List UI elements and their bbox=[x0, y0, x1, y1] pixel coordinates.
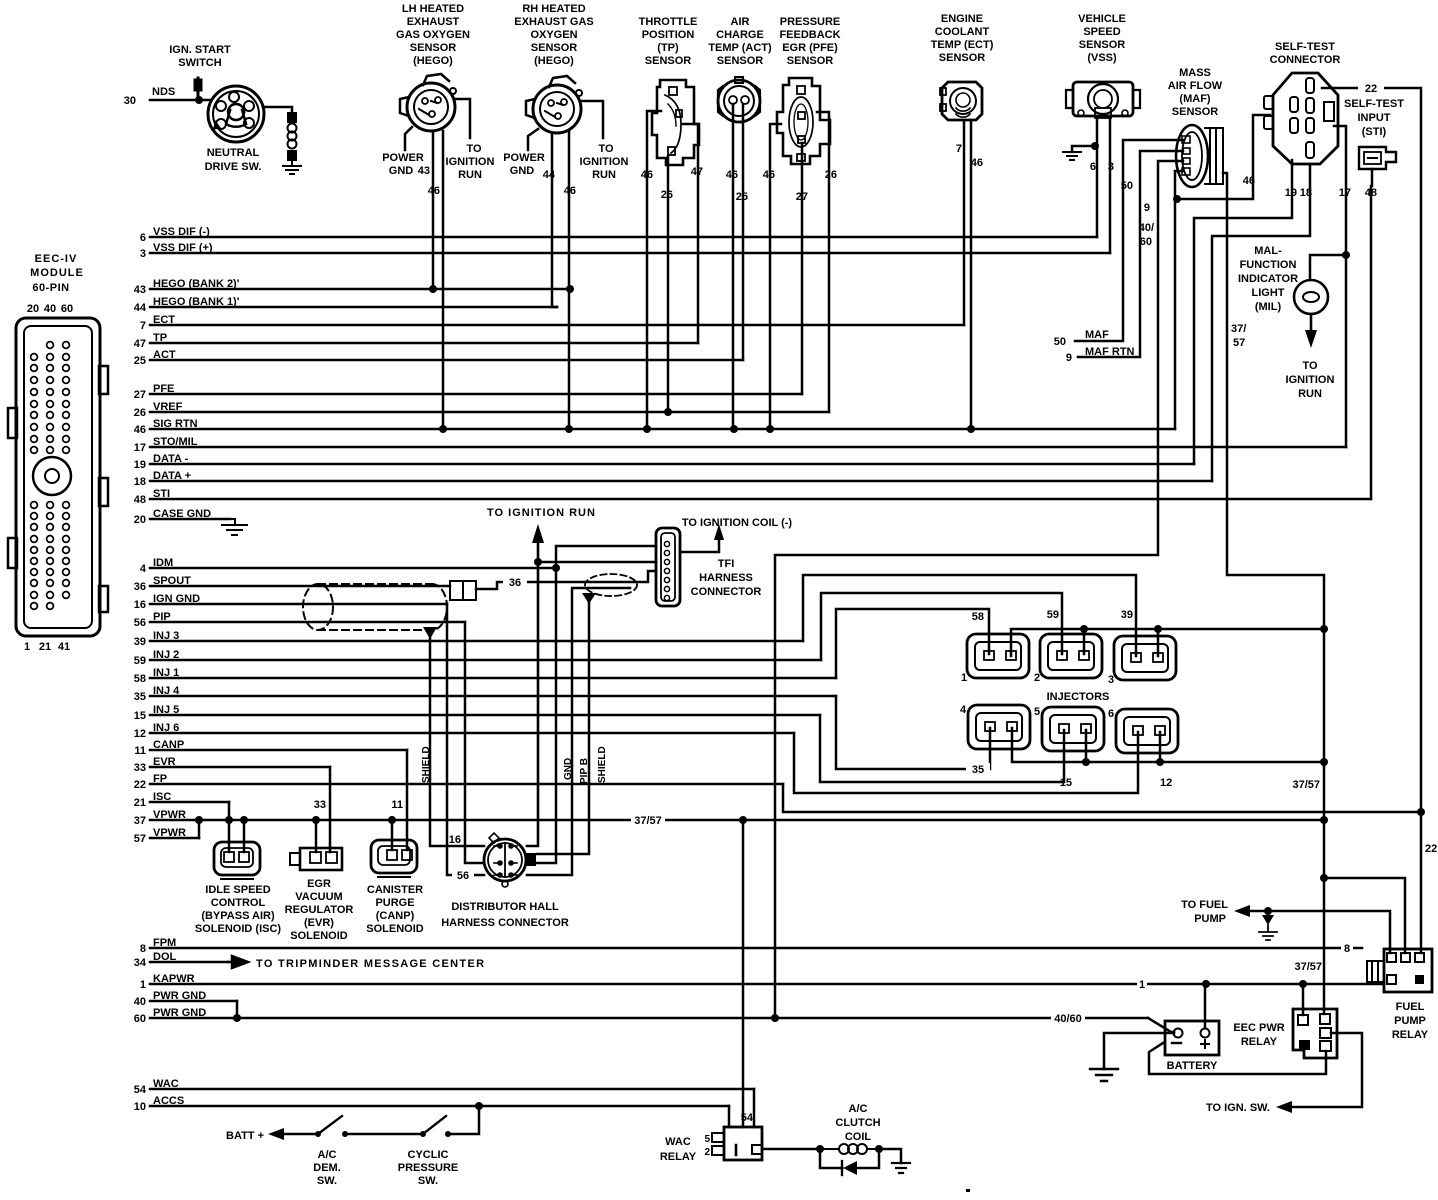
wire KAPWR (pin 1) bus line bbox=[150, 983, 1383, 986]
svg-text:THROTTLE: THROTTLE bbox=[639, 16, 698, 28]
module labels bbox=[24, 253, 84, 653]
svg-text:40/60: 40/60 bbox=[1054, 1013, 1082, 1025]
svg-text:22: 22 bbox=[1365, 83, 1377, 95]
svg-text:STI: STI bbox=[153, 488, 170, 500]
wire VPWR (pin 37) bus line bbox=[150, 819, 1324, 822]
svg-text:DRIVE SW.: DRIVE SW. bbox=[205, 161, 262, 173]
svg-text:57: 57 bbox=[134, 833, 146, 845]
wire TP 46 to SIG RTN bbox=[647, 111, 661, 429]
wire ACT 25 to ACT line bbox=[742, 104, 745, 360]
svg-text:SENSOR: SENSOR bbox=[410, 42, 457, 54]
svg-text:47: 47 bbox=[691, 166, 703, 178]
svg-text:TFI: TFI bbox=[718, 558, 735, 570]
svg-text:PUMP: PUMP bbox=[1394, 1015, 1426, 1027]
wire INJ 5 (pin 15) bus line bbox=[150, 714, 820, 717]
wire MAF pin 9 (MAF RTN) bbox=[1078, 151, 1183, 357]
svg-text:SW.: SW. bbox=[418, 1175, 438, 1187]
svg-text:21: 21 bbox=[39, 641, 51, 653]
svg-text:INDICATOR: INDICATOR bbox=[1238, 273, 1298, 285]
svg-text:AIR: AIR bbox=[731, 16, 750, 28]
svg-text:CONTROL: CONTROL bbox=[211, 897, 266, 909]
svg-text:TEMP (ECT): TEMP (ECT) bbox=[931, 39, 994, 51]
svg-text:48: 48 bbox=[134, 494, 146, 506]
svg-text:COOLANT: COOLANT bbox=[935, 26, 990, 38]
svg-text:(CANP): (CANP) bbox=[376, 910, 415, 922]
svg-text:12: 12 bbox=[1160, 777, 1172, 789]
svg-text:POWER: POWER bbox=[382, 152, 424, 164]
wire label gaps on bus lines bbox=[631, 814, 665, 827]
svg-text:TP: TP bbox=[153, 332, 167, 344]
wire VSS pin6 to VSS DIF(-) with ground branch bbox=[1072, 118, 1097, 237]
svg-text:27: 27 bbox=[796, 191, 808, 203]
svg-text:SENSOR: SENSOR bbox=[787, 55, 834, 67]
wire MAF pin 50 bbox=[1075, 140, 1183, 341]
svg-text:SENSOR: SENSOR bbox=[1172, 106, 1219, 118]
injector top power rail bbox=[1011, 629, 1324, 656]
svg-text:FPM: FPM bbox=[153, 937, 176, 949]
svg-text:(BYPASS AIR): (BYPASS AIR) bbox=[201, 910, 275, 922]
svg-text:7: 7 bbox=[140, 320, 146, 332]
svg-text:FEEDBACK: FEEDBACK bbox=[779, 29, 840, 41]
svg-text:INJ 4: INJ 4 bbox=[153, 685, 180, 697]
svg-text:20: 20 bbox=[134, 514, 146, 526]
svg-text:18: 18 bbox=[1300, 187, 1312, 199]
svg-text:POWER: POWER bbox=[503, 152, 545, 164]
svg-text:IGNITION: IGNITION bbox=[1286, 374, 1335, 386]
wire EVR pin to VPWR bbox=[315, 820, 318, 852]
injector connector 2 (top row) bbox=[1040, 634, 1102, 678]
svg-text:PFE: PFE bbox=[153, 383, 174, 395]
wire PIP (pin 56) bus line bbox=[150, 621, 465, 624]
wire INJ 3 (pin 39) bus line bbox=[150, 640, 803, 643]
svg-text:(HEGO): (HEGO) bbox=[534, 55, 574, 67]
wire ISC (pin 21) bus line bbox=[150, 801, 229, 804]
wire ECT (pin 7) bus line bbox=[150, 324, 964, 327]
svg-text:8: 8 bbox=[140, 943, 146, 955]
shield drain arrow 2 bbox=[582, 593, 596, 604]
wire shield to distributor bbox=[430, 637, 484, 846]
sensor MAF (mass air flow) bbox=[1176, 125, 1223, 187]
wire PFE 46 to SIG RTN bbox=[770, 124, 781, 429]
svg-text:IDM: IDM bbox=[153, 557, 173, 569]
resistor (coil) on NDS ground branch bbox=[288, 113, 297, 160]
svg-text:CANP: CANP bbox=[153, 739, 184, 751]
svg-text:40/: 40/ bbox=[1139, 222, 1154, 234]
svg-text:INJ 2: INJ 2 bbox=[153, 649, 179, 661]
svg-text:22: 22 bbox=[134, 779, 146, 791]
svg-text:40: 40 bbox=[134, 996, 146, 1008]
wire TP 26 to VREF bbox=[667, 156, 670, 412]
wire to fuel pump + splice bbox=[1250, 911, 1390, 953]
svg-text:3: 3 bbox=[140, 248, 146, 260]
svg-text:VPWR: VPWR bbox=[153, 827, 186, 839]
self-test connector bbox=[1264, 73, 1338, 164]
svg-text:INPUT: INPUT bbox=[1358, 112, 1391, 124]
shield drain arrow bbox=[423, 627, 437, 639]
battery bbox=[1165, 1021, 1219, 1055]
wire EVR pin2 to EVR line bbox=[329, 767, 332, 852]
svg-text:EGR (PFE): EGR (PFE) bbox=[782, 42, 838, 54]
svg-text:FUEL: FUEL bbox=[1396, 1001, 1425, 1013]
svg-text:PWR GND: PWR GND bbox=[153, 990, 206, 1002]
svg-text:PWR GND: PWR GND bbox=[153, 1007, 206, 1019]
wire self-test 17 to STO/MIL bbox=[1334, 126, 1346, 447]
svg-text:19: 19 bbox=[1285, 187, 1297, 199]
sensor HEGO RH (right heated exhaust gas oxygen sensor) bbox=[526, 76, 582, 133]
svg-text:CANISTER: CANISTER bbox=[367, 884, 423, 896]
wire NDS pin30 to switch bbox=[150, 99, 210, 102]
svg-text:HEGO (BANK 1)': HEGO (BANK 1)' bbox=[153, 296, 240, 308]
wire INJ1 feeder to injector 1 bbox=[836, 609, 989, 678]
svg-text:CLUTCH: CLUTCH bbox=[835, 1117, 880, 1129]
solenoid ISC (idle speed control) bbox=[214, 842, 260, 879]
svg-text:SENSOR: SENSOR bbox=[939, 52, 986, 64]
vertical labels GND PIP B SHIELD bbox=[421, 746, 608, 784]
svg-text:IDLE SPEED: IDLE SPEED bbox=[205, 884, 270, 896]
svg-text:35: 35 bbox=[134, 691, 146, 703]
svg-text:BATT +: BATT + bbox=[226, 1130, 264, 1142]
svg-text:21: 21 bbox=[134, 797, 146, 809]
svg-text:58: 58 bbox=[134, 673, 146, 685]
switch cyclic pressure bbox=[420, 1131, 426, 1137]
component name texts (top row) bbox=[396, 3, 1404, 138]
wire HEGO LH to ignition run bbox=[455, 99, 470, 138]
svg-text:TO IGN. SW.: TO IGN. SW. bbox=[1206, 1102, 1270, 1114]
svg-text:IGNITION: IGNITION bbox=[580, 156, 629, 168]
sensor VSS (vehicle speed) bbox=[1066, 82, 1140, 118]
svg-text:(EVR): (EVR) bbox=[304, 917, 334, 929]
wire self-test 18 to DATA+ bbox=[1212, 164, 1310, 481]
svg-text:DEM.: DEM. bbox=[313, 1162, 341, 1174]
svg-text:2: 2 bbox=[704, 1147, 710, 1158]
wire FPM (pin 8) bus line bbox=[150, 947, 1362, 950]
distributor hall harness connector bbox=[484, 833, 536, 887]
wire PWR GND 40 riser bbox=[236, 1001, 239, 1018]
svg-text:PIP: PIP bbox=[153, 611, 171, 623]
wire EEC relay ground return to battery bbox=[1149, 1043, 1326, 1074]
wire WAC relay to A/C clutch coil bbox=[762, 1148, 820, 1151]
svg-text:ACT: ACT bbox=[153, 349, 176, 361]
wire DATA + (pin 18) bus line bbox=[150, 480, 1212, 483]
wire ACCS (pin 10) bus line bbox=[150, 1105, 729, 1108]
svg-text:43: 43 bbox=[134, 284, 146, 296]
svg-text:9: 9 bbox=[1144, 202, 1150, 214]
svg-text:GND: GND bbox=[510, 165, 535, 177]
svg-text:39: 39 bbox=[1121, 609, 1133, 621]
svg-text:44: 44 bbox=[134, 302, 147, 314]
svg-text:46: 46 bbox=[726, 169, 738, 181]
svg-text:GND: GND bbox=[563, 758, 574, 780]
wire MAF 40/60 to PWR GND bbox=[775, 161, 1183, 1018]
svg-text:PURGE: PURGE bbox=[375, 897, 414, 909]
wire IDM to TFI pin1 and distributor bbox=[527, 546, 656, 863]
svg-text:3: 3 bbox=[1108, 161, 1114, 173]
svg-text:VREF: VREF bbox=[153, 401, 183, 413]
wire to cyclic pressure switch bbox=[345, 1133, 423, 1136]
svg-text:37: 37 bbox=[134, 815, 146, 827]
svg-text:60: 60 bbox=[134, 1013, 146, 1025]
wire coil to ground bbox=[879, 1149, 901, 1163]
svg-text:WAC: WAC bbox=[665, 1136, 691, 1148]
svg-text:50: 50 bbox=[1054, 336, 1066, 348]
svg-text:3: 3 bbox=[1108, 674, 1114, 686]
svg-text:36: 36 bbox=[509, 577, 521, 589]
svg-text:DISTRIBUTOR HALL: DISTRIBUTOR HALL bbox=[451, 901, 559, 913]
svg-text:34: 34 bbox=[134, 957, 147, 969]
injector connector 3 (top row) bbox=[1114, 636, 1176, 680]
svg-text:46: 46 bbox=[1243, 175, 1255, 187]
svg-text:(HEGO): (HEGO) bbox=[413, 55, 453, 67]
wire INJ 1 (pin 58) bus line bbox=[150, 677, 836, 680]
svg-text:6: 6 bbox=[140, 232, 146, 244]
svg-text:NDS: NDS bbox=[152, 86, 175, 98]
wire CANP pin2 to CANP line bbox=[406, 750, 409, 850]
svg-text:11: 11 bbox=[134, 745, 146, 757]
svg-text:DATA +: DATA + bbox=[153, 470, 191, 482]
ground (case gnd pin 20) bbox=[222, 519, 247, 535]
svg-text:SIG RTN: SIG RTN bbox=[153, 418, 198, 430]
svg-text:9: 9 bbox=[1066, 352, 1072, 364]
wire INJ6 feeder to injector 6 bbox=[794, 732, 1138, 793]
svg-text:12: 12 bbox=[134, 728, 146, 740]
svg-text:18: 18 bbox=[134, 476, 146, 488]
svg-text:37/: 37/ bbox=[1231, 323, 1246, 335]
svg-text:MAF: MAF bbox=[1085, 329, 1109, 341]
svg-text:2: 2 bbox=[1034, 672, 1040, 684]
svg-text:VEHICLE: VEHICLE bbox=[1078, 13, 1126, 25]
svg-text:CONNECTOR: CONNECTOR bbox=[691, 586, 762, 598]
svg-text:RUN: RUN bbox=[592, 169, 616, 181]
svg-text:1: 1 bbox=[24, 641, 30, 653]
wire HEGO LH pin 43 to HEGO BANK2 line bbox=[432, 131, 435, 289]
wire TP 47 to TP line bbox=[682, 124, 698, 343]
svg-text:DATA -: DATA - bbox=[153, 453, 189, 465]
A/C clutch coil bbox=[820, 1144, 879, 1154]
wire HEGO (BANK 2)' (pin 43) bus line bbox=[150, 288, 570, 291]
wire VPWR (pin 57) bus line bbox=[150, 837, 199, 840]
svg-text:A/C: A/C bbox=[849, 1103, 868, 1115]
ignition start switch key symbol bbox=[195, 78, 201, 99]
sensor ACT (air charge temp) bbox=[718, 77, 760, 122]
wire WAC (pin 54) bus line bbox=[150, 1088, 754, 1091]
arrow MIL to ignition run bbox=[1310, 314, 1313, 332]
wire INJ4 feeder to injector 4 bbox=[836, 696, 990, 769]
shielded cable (dashed) around SPOUT/PIP bbox=[303, 584, 447, 630]
injector connector 4 (bottom row) bbox=[968, 705, 1030, 749]
wire VSS DIF (+) (pin 3) bus line bbox=[150, 252, 1110, 255]
wire IGN GND (pin 16) bus line bbox=[150, 603, 447, 606]
svg-text:TO IGNITION COIL (-): TO IGNITION COIL (-) bbox=[682, 517, 793, 529]
svg-text:HARNESS: HARNESS bbox=[699, 572, 753, 584]
scan artifact dot bbox=[966, 1189, 970, 1192]
svg-text:MASS: MASS bbox=[1179, 67, 1211, 79]
wire shield2 to distributor tab bbox=[537, 602, 589, 854]
wire VSS DIF (-) (pin 6) bus line bbox=[150, 236, 1097, 239]
wire TO IGNITION RUN feed to TFI pin3 and distributor bbox=[527, 541, 656, 846]
malfunction indicator light MIL bbox=[1310, 255, 1346, 280]
svg-text:59: 59 bbox=[1047, 609, 1059, 621]
svg-text:SENSOR: SENSOR bbox=[645, 55, 692, 67]
wire switch to resistor to ground bbox=[263, 107, 292, 113]
sensor HEGO LH (left heated exhaust gas oxygen sensor) bbox=[400, 74, 456, 131]
svg-text:RELAY: RELAY bbox=[1392, 1029, 1429, 1041]
svg-text:47: 47 bbox=[134, 338, 146, 350]
svg-text:33: 33 bbox=[134, 762, 146, 774]
wire DOL (pin 34) bus line bbox=[150, 961, 228, 964]
wire battery minus to ground bbox=[1104, 1033, 1174, 1069]
injector connector 1 (top row) bbox=[967, 634, 1029, 678]
inline connector on SPOUT bbox=[450, 581, 476, 600]
svg-text:SPOUT: SPOUT bbox=[153, 575, 191, 587]
wire INJ5 feeder to injector 5 bbox=[820, 715, 1064, 782]
svg-text:MODULE: MODULE bbox=[30, 267, 84, 279]
svg-text:5: 5 bbox=[1034, 706, 1040, 718]
svg-text:IGNITION: IGNITION bbox=[446, 156, 495, 168]
wire INJ 6 (pin 12) bus line bbox=[150, 732, 794, 735]
wire HEGO (BANK 1)' (pin 44) bus line bbox=[150, 306, 557, 309]
wire PWR GND (pin 40) bus line bbox=[150, 1000, 237, 1003]
wire DATA - (pin 19) bus line bbox=[150, 463, 1194, 466]
svg-text:SOLENOID: SOLENOID bbox=[366, 923, 424, 935]
wire TP (pin 47) bus line bbox=[150, 342, 698, 345]
wire TFI pin2 to ignition coil bbox=[680, 538, 719, 552]
wire CASE GND (pin 20) bus line bbox=[150, 518, 230, 521]
svg-text:TO: TO bbox=[1302, 360, 1318, 372]
wire IGN GND to distributor bbox=[447, 604, 484, 875]
svg-text:SELF-TEST: SELF-TEST bbox=[1344, 98, 1404, 110]
svg-text:(MIL): (MIL) bbox=[1255, 301, 1282, 313]
svg-text:RELAY: RELAY bbox=[660, 1151, 697, 1163]
svg-text:INJ 5: INJ 5 bbox=[153, 704, 179, 716]
wire HEGO RH pin 46 to SIG RTN bbox=[568, 131, 571, 429]
svg-text:EEC PWR: EEC PWR bbox=[1233, 1022, 1284, 1034]
svg-text:ISC: ISC bbox=[153, 791, 171, 803]
svg-text:TO IGNITION RUN: TO IGNITION RUN bbox=[487, 507, 596, 519]
svg-text:8: 8 bbox=[1344, 943, 1350, 955]
svg-text:PRESSURE: PRESSURE bbox=[398, 1162, 459, 1174]
svg-text:1: 1 bbox=[961, 672, 967, 684]
svg-text:AIR FLOW: AIR FLOW bbox=[1168, 80, 1223, 92]
svg-text:CHARGE: CHARGE bbox=[716, 29, 764, 41]
wire PFE (pin 27) bus line bbox=[150, 393, 802, 396]
svg-text:46: 46 bbox=[971, 157, 983, 169]
svg-text:TO: TO bbox=[466, 143, 482, 155]
TFI harness connector bbox=[656, 528, 680, 606]
wire ACT 46 to SIG RTN bbox=[732, 104, 735, 429]
svg-text:20: 20 bbox=[27, 303, 39, 315]
wire HEGO LH power gnd bbox=[405, 127, 412, 150]
svg-text:19: 19 bbox=[134, 459, 146, 471]
solenoid EVR (EGR vacuum regulator) bbox=[290, 848, 342, 870]
ground (battery) bbox=[1090, 1069, 1118, 1081]
svg-text:PRESSURE: PRESSURE bbox=[780, 16, 841, 28]
label 56 gap bbox=[452, 869, 474, 882]
wire EVR (pin 33) bus line bbox=[150, 766, 330, 769]
injector connector 5 (bottom row) bbox=[1042, 707, 1104, 751]
svg-text:58: 58 bbox=[972, 611, 984, 623]
svg-text:56: 56 bbox=[457, 870, 469, 882]
injector wire number labels bbox=[972, 609, 1173, 789]
svg-text:TEMP (ACT): TEMP (ACT) bbox=[708, 42, 772, 54]
neutral drive switch bbox=[208, 86, 264, 142]
svg-text:SENSOR: SENSOR bbox=[531, 42, 578, 54]
svg-text:1: 1 bbox=[1139, 979, 1145, 991]
svg-text:GAS OXYGEN: GAS OXYGEN bbox=[396, 29, 470, 41]
wire BATT+ to A/C dem switch bbox=[284, 1133, 318, 1136]
ground (VSS) bbox=[1063, 152, 1081, 160]
svg-text:30: 30 bbox=[124, 95, 136, 107]
wire INJ 2 (pin 59) bus line bbox=[150, 659, 821, 662]
svg-text:25: 25 bbox=[134, 355, 146, 367]
svg-text:15: 15 bbox=[134, 710, 146, 722]
svg-text:(MAF): (MAF) bbox=[1179, 93, 1210, 105]
relay fuel pump bbox=[1367, 949, 1432, 992]
svg-text:CYCLIC: CYCLIC bbox=[408, 1149, 449, 1161]
svg-text:54: 54 bbox=[741, 1112, 754, 1124]
svg-text:FP: FP bbox=[153, 773, 167, 785]
svg-text:1: 1 bbox=[140, 979, 146, 991]
label 35 gap on INJ4 feeder bbox=[966, 763, 990, 776]
svg-text:STO/MIL: STO/MIL bbox=[153, 436, 198, 448]
wire INJ2 feeder to injector 2 bbox=[821, 593, 1062, 660]
wire VSS pin3 to VSS DIF(+) bbox=[1109, 118, 1112, 253]
svg-text:46: 46 bbox=[564, 185, 576, 197]
wire IDM (pin 4) bus line bbox=[150, 567, 556, 570]
svg-text:(STI): (STI) bbox=[1362, 126, 1387, 138]
svg-text:50: 50 bbox=[1121, 180, 1133, 192]
svg-text:56: 56 bbox=[134, 617, 146, 629]
wire MAF pin4 / SIG RTN riser bbox=[1175, 171, 1183, 429]
svg-text:VACUUM: VACUUM bbox=[295, 891, 342, 903]
wire ECT 46 to SIG RTN bbox=[970, 120, 973, 429]
svg-text:PUMP: PUMP bbox=[1194, 913, 1226, 925]
svg-text:TO FUEL: TO FUEL bbox=[1181, 899, 1228, 911]
svg-text:KAPWR: KAPWR bbox=[153, 973, 195, 985]
svg-text:PIP B: PIP B bbox=[579, 758, 590, 784]
svg-text:SW.: SW. bbox=[317, 1175, 337, 1187]
wire ISC pin2 to VPWR bbox=[243, 820, 246, 852]
wire INJ 4 (pin 35) bus line bbox=[150, 695, 836, 698]
wire PFE 27 to PFE line bbox=[801, 143, 804, 394]
wire HEGO LH pin 46 to SIG RTN bbox=[442, 131, 445, 429]
svg-text:BATTERY: BATTERY bbox=[1167, 1060, 1218, 1072]
svg-text:40: 40 bbox=[44, 303, 56, 315]
svg-text:SWITCH: SWITCH bbox=[178, 57, 221, 69]
wire self-test 19 to DATA- bbox=[1194, 160, 1292, 464]
svg-text:17: 17 bbox=[134, 442, 146, 454]
svg-text:VPWR: VPWR bbox=[153, 809, 186, 821]
svg-text:46: 46 bbox=[763, 169, 775, 181]
solenoid CANP (canister purge) bbox=[371, 840, 417, 877]
svg-text:60: 60 bbox=[61, 303, 73, 315]
svg-text:DOL: DOL bbox=[153, 951, 177, 963]
svg-text:7: 7 bbox=[956, 143, 962, 155]
wire STO/MIL (pin 17) bus line bbox=[150, 446, 1346, 449]
svg-text:CONNECTOR: CONNECTOR bbox=[1270, 54, 1341, 66]
svg-text:NEUTRAL: NEUTRAL bbox=[207, 147, 260, 159]
svg-text:26: 26 bbox=[825, 169, 837, 181]
svg-text:LIGHT: LIGHT bbox=[1252, 287, 1285, 299]
diode across A/C clutch coil bbox=[820, 1149, 879, 1168]
svg-text:EXHAUST GAS: EXHAUST GAS bbox=[514, 16, 593, 28]
svg-text:16: 16 bbox=[449, 834, 461, 846]
svg-text:GND: GND bbox=[389, 165, 414, 177]
svg-text:ECT: ECT bbox=[153, 314, 175, 326]
svg-text:35: 35 bbox=[972, 764, 984, 776]
svg-text:COIL: COIL bbox=[845, 1131, 872, 1143]
wire MAF 37/57 feed bbox=[1223, 173, 1324, 1014]
svg-text:60: 60 bbox=[1140, 236, 1152, 248]
